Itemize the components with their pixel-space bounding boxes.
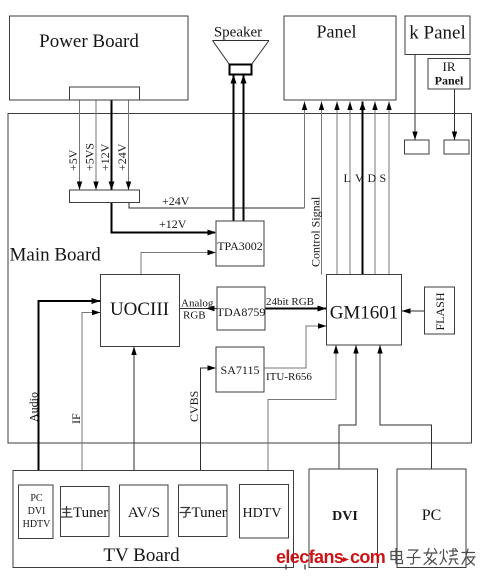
wire speaker left [231, 75, 237, 222]
svg-text:Tuner: Tuner [73, 505, 108, 521]
svg-text:TV Board: TV Board [103, 545, 180, 566]
wire audio UOCIII to TPA3002 [141, 250, 216, 275]
k panel [405, 16, 470, 55]
chinese text you (friend) [462, 549, 475, 565]
wire Audio line to UOCIII [39, 298, 101, 485]
svg-text:V: V [355, 171, 364, 185]
svg-text:TPA3002: TPA3002 [217, 239, 263, 253]
svg-text:Analog: Analog [181, 298, 214, 310]
svg-text:Panel: Panel [435, 74, 464, 88]
FLASH [425, 287, 455, 334]
wire HDTV to GM1601 [268, 345, 339, 485]
svg-text:RGB: RGB [183, 310, 206, 322]
svg-text:D: D [368, 171, 377, 185]
TPA3002 [216, 221, 264, 266]
wire +12V from connector to TPA3002 [112, 203, 217, 236]
wire PC to GM1601 [377, 345, 431, 469]
svg-text:Main Board: Main Board [10, 245, 102, 266]
main tuner box [61, 487, 110, 537]
svg-text:TDA8759: TDA8759 [217, 305, 266, 319]
SA7115 [216, 347, 264, 392]
chinese text fa [424, 549, 437, 565]
wire SA7115 to GM1601 [264, 323, 327, 368]
svg-text:GM1601: GM1601 [330, 303, 399, 324]
svg-text:SA7115: SA7115 [221, 363, 260, 377]
svg-text:HDTV: HDTV [243, 506, 282, 521]
wire LVDS 1 [334, 102, 339, 275]
svg-text:FLASH: FLASH [433, 292, 447, 330]
svg-text:HDTV: HDTV [23, 519, 52, 530]
wire control signal Panel-GM1601 [319, 102, 324, 275]
svg-text:PC: PC [30, 493, 43, 504]
svg-text:S: S [380, 171, 387, 185]
HDTV box [240, 485, 289, 539]
svg-text:k Panel: k Panel [409, 23, 465, 44]
TDA8759 [217, 287, 266, 330]
svg-text:Speaker: Speaker [214, 25, 262, 41]
wire +24V from connector to Panel [129, 102, 307, 209]
svg-text:+12V: +12V [159, 217, 187, 231]
svg-text:+24V: +24V [115, 143, 129, 171]
svg-text:elecfans: elecfans [276, 547, 344, 567]
PC DVI HDTV input box [19, 485, 54, 539]
svg-text:PC: PC [422, 507, 442, 524]
GM1601 [327, 275, 402, 346]
chinese text dian (electronic) [391, 549, 403, 564]
elecfans.com logo [276, 547, 385, 569]
main board outline [8, 114, 472, 444]
wire +5VS from power board to connector [93, 100, 98, 190]
IR panel [428, 59, 470, 90]
UOCIII [101, 275, 180, 347]
svg-text:Tuner: Tuner [192, 505, 227, 521]
connector below k panel [405, 140, 430, 154]
sub tuner box [179, 485, 228, 537]
wire +24V from power board to connector [126, 100, 131, 190]
wire LVDS 3 (thick) [360, 102, 366, 275]
DVI box [309, 469, 378, 568]
svg-text:24bit RGB: 24bit RGB [266, 296, 314, 308]
svg-text:ITU-R656: ITU-R656 [266, 371, 312, 383]
chinese text zi [407, 550, 420, 564]
AV/S box [120, 485, 169, 537]
wire FLASH to GM1601 [402, 308, 425, 313]
PC box [397, 469, 466, 568]
svg-text:AV/S: AV/S [128, 505, 160, 521]
svg-text:DVI: DVI [28, 506, 46, 517]
svg-text:CVBS: CVBS [187, 391, 201, 422]
chinese text shao [440, 549, 458, 565]
wire analog RGB UOCIII-TDA8759 [180, 306, 218, 311]
svg-text:+12V: +12V [98, 143, 112, 171]
svg-text:Power Board: Power Board [39, 31, 139, 52]
svg-text:UOCIII: UOCIII [110, 299, 169, 320]
wire AV/S to UOCIII [131, 347, 136, 486]
wire CVBS to SA7115 [201, 365, 217, 485]
svg-text:Panel: Panel [317, 22, 357, 42]
wire +5V from power board to connector [77, 100, 82, 190]
svg-text:IR: IR [443, 59, 456, 74]
wire 24bit RGB TDA8759-GM1601 [265, 306, 327, 312]
connector below IR panel [444, 140, 469, 154]
svg-text:+5V: +5V [66, 149, 80, 171]
wire speaker right [241, 75, 247, 222]
speaker symbol [213, 25, 270, 75]
svg-text:Control Signal: Control Signal [309, 196, 323, 267]
wire IF line to UOCIII [82, 310, 101, 487]
svg-text:IF: IF [69, 413, 83, 424]
wire DVI to GM1601 [339, 345, 359, 469]
svg-text:+24V: +24V [162, 194, 190, 208]
svg-text:L: L [344, 171, 351, 185]
wire k Panel to connector [412, 55, 417, 141]
power board connector tab [70, 87, 140, 100]
power board [10, 16, 189, 100]
wire LVDS 2 [347, 102, 352, 275]
TV board [13, 471, 294, 568]
wire IR Panel to connector [452, 89, 457, 140]
wire LVDS 5 [386, 102, 391, 275]
panel [284, 16, 396, 100]
wire +12V from power board to connector (thick) [109, 100, 115, 190]
svg-text:com: com [350, 547, 385, 567]
wire LVDS 4 [372, 102, 377, 275]
svg-text:DVI: DVI [332, 509, 358, 524]
svg-text:Audio: Audio [27, 392, 41, 422]
svg-text:+5VS: +5VS [83, 143, 97, 171]
power supply connector on main board [70, 190, 140, 203]
